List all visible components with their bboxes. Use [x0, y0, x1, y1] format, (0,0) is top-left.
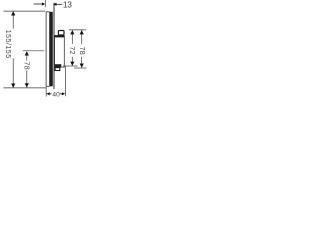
plate front outline bar [46, 12, 50, 87]
svg-text:78: 78 [78, 46, 87, 54]
dim 78 left down arrow [25, 83, 29, 87]
dim 78 left dimension line lower [26, 71, 28, 88]
handle top knob [58, 31, 64, 36]
dim 78 right down arrow [80, 64, 84, 68]
dim 78 right dimension line upper [81, 30, 83, 44]
wall line [54, 3, 55, 89]
dim 40 right extension line [64, 66, 66, 96]
dim 13 left-pointing arrow [53, 3, 56, 6]
handle top dark band [55, 35, 65, 37]
svg-text:40: 40 [52, 91, 60, 98]
dim 40 left arrow [46, 92, 49, 95]
dim 78 left up arrow [25, 51, 29, 55]
plate dark bar [50, 12, 53, 87]
svg-text:78: 78 [23, 61, 32, 69]
svg-text:13: 13 [63, 0, 72, 10]
dim 155/155 top extension line [4, 10, 46, 12]
dim 78 right bottom tick line [74, 67, 87, 69]
dim 72 up arrow [70, 30, 74, 34]
dim 72 bottom tick line [63, 65, 78, 67]
dim 40 left extension line [45, 87, 47, 97]
dim 72 dimension line upper [71, 30, 73, 44]
dim 155/155 top arrow [11, 11, 15, 15]
dim 72 dimension line lower [71, 57, 73, 66]
dim 155/155 dimension line [12, 11, 14, 28]
dim 13 right-pointing arrow [34, 3, 43, 5]
dim 78 right dimension line lower [81, 57, 83, 68]
dim 13 left extension line [44, 0, 46, 7]
dim 72 down arrow [70, 62, 74, 66]
dim 155/155 bottom arrow [11, 84, 15, 88]
dim 155/155 bottom extension line [4, 87, 47, 89]
dim 78 left extension line [23, 50, 44, 52]
handle bottom knob [55, 68, 60, 71]
dim 40 right arrow [62, 92, 65, 95]
dim 78 right up arrow [80, 30, 84, 34]
handle body rect [55, 36, 65, 68]
svg-text:72: 72 [68, 46, 77, 54]
svg-text:155/155: 155/155 [4, 30, 11, 59]
dim 72 top tick line shared [69, 29, 87, 31]
dim 78 left dimension line upper [26, 51, 28, 60]
handle bottom dark band [55, 64, 62, 67]
